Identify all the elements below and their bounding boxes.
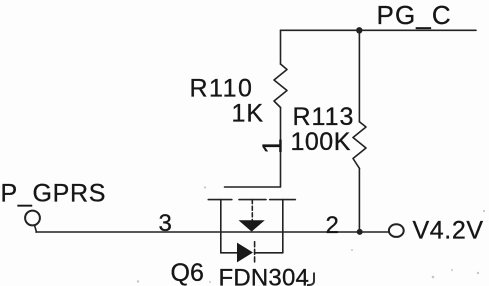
transistor Q6 channel segment right [270,199,296,201]
svg-text:1: 1 [257,138,288,154]
svg-text:FDN304: FDN304 [219,265,310,286]
svg-text:100K: 100K [291,128,351,156]
wire main horizontal P_GPRS to V4.2V [36,231,389,233]
wire R113 bottom lead [358,168,360,232]
wire gate lead [225,108,281,188]
wire Q6 body stub [251,200,253,221]
wire body diode cathode lead [255,252,283,254]
node junction main wire / R113 [357,229,363,235]
svg-text:R110: R110 [190,75,254,103]
resistor R110 [274,64,287,108]
svg-text:Q6: Q6 [171,259,204,286]
resistor R113 [353,122,366,169]
wire top horizontal PG_C net [281,29,477,31]
transistor Q6 channel segment middle [239,199,266,201]
svg-text:V4.2V: V4.2V [413,217,484,245]
transistor Q6 channel segment left [208,199,232,201]
svg-text:PG_C: PG_C [377,0,452,30]
svg-text:3: 3 [159,210,172,237]
node PG_C junction [356,27,362,33]
wire body diode anode lead [221,252,237,254]
terminal V4.2V [389,224,404,237]
wire Q6 drain terminal (pin 2 side) [282,200,284,253]
artifact specks [137,186,485,283]
diode D (body diode of Q6) [237,243,253,263]
diode cathode bar [254,242,256,264]
terminal P_GPRS [25,211,40,226]
wire Q6 source terminal (pin 3 side) [220,200,222,253]
svg-text:2: 2 [326,212,339,239]
svg-text:P_GPRS: P_GPRS [1,180,107,208]
wire R113 top lead [358,30,360,122]
transistor Q6 body arrow [239,220,265,231]
wire R110 top lead [280,30,282,64]
svg-text:R113: R113 [293,103,355,131]
artifact mark after FDN304 [307,273,314,286]
svg-text:1K: 1K [232,100,265,128]
wire P_GPRS terminal link [35,225,37,232]
